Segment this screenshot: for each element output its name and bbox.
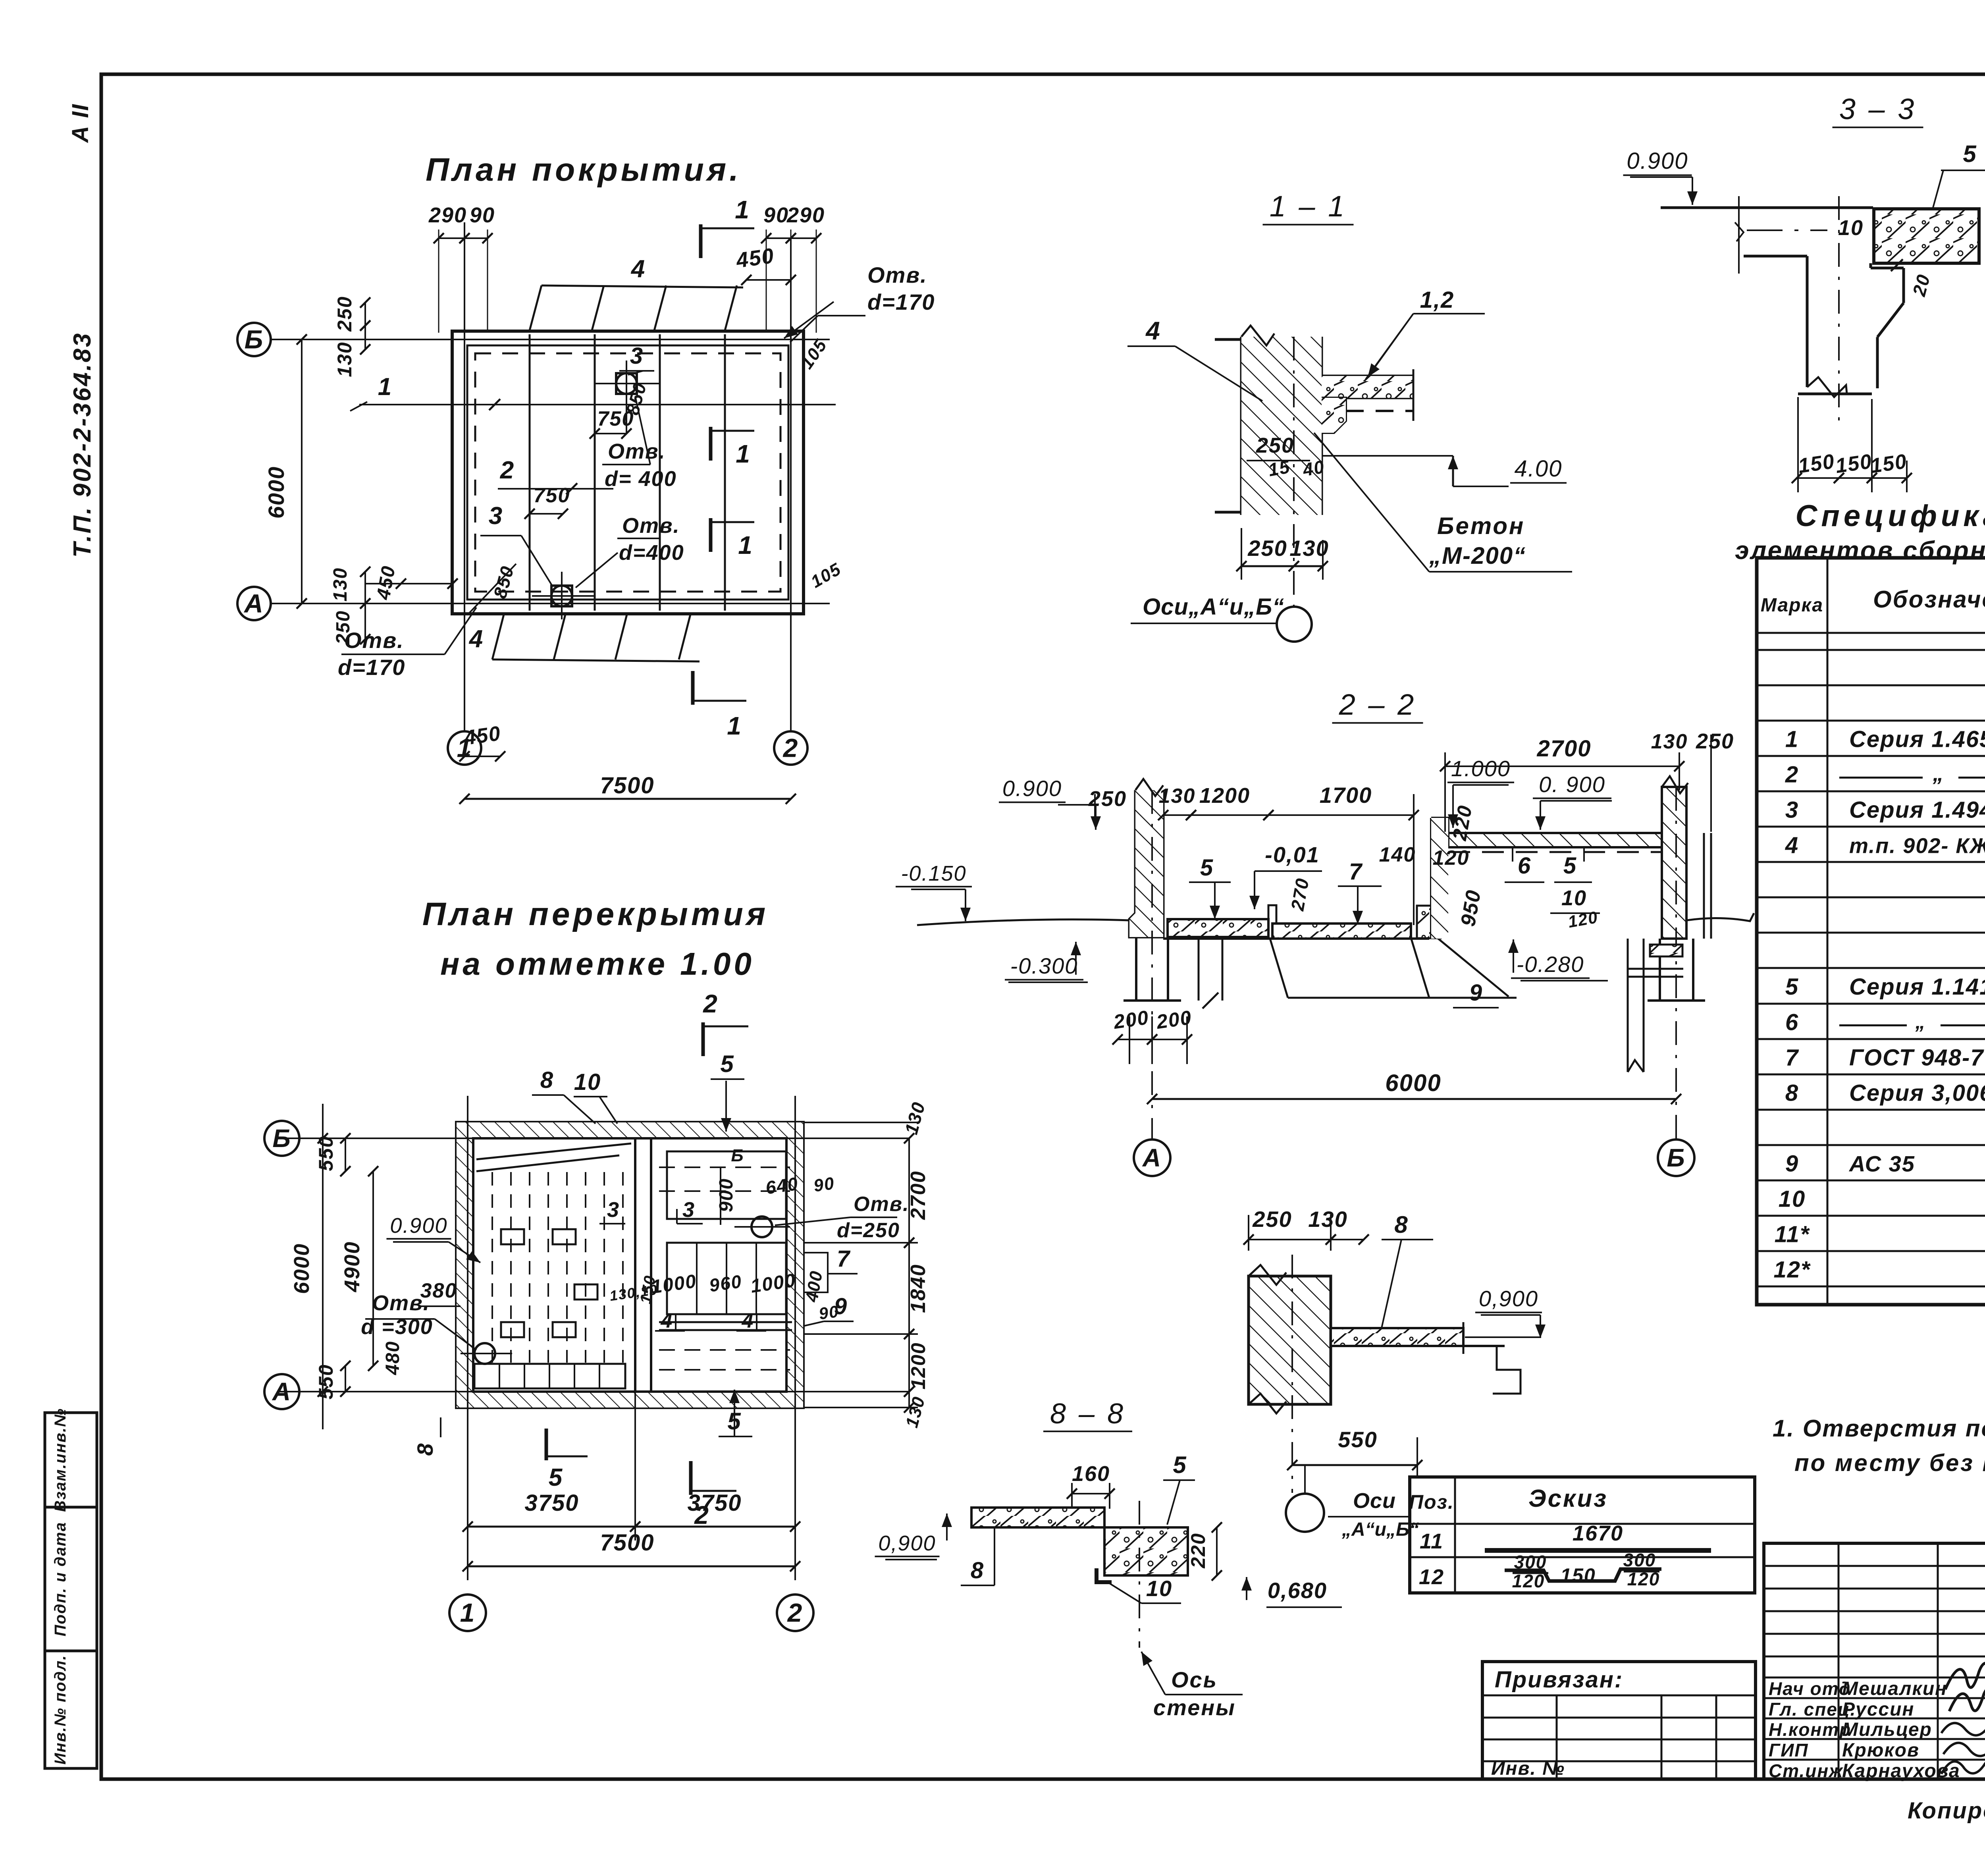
svg-text:0.900: 0.900 [1627, 148, 1688, 174]
dim 750 a [590, 407, 634, 439]
svg-text:4900: 4900 [340, 1241, 364, 1292]
sec2 level -0.150 [896, 862, 972, 921]
svg-text:-0,01: -0,01 [1265, 842, 1320, 867]
sec1 wall hatch [1241, 337, 1322, 515]
sec2 label 5 [1189, 855, 1231, 919]
svg-text:Оси„А“и„Б“: Оси„А“и„Б“ [1143, 594, 1284, 620]
plan2 label 9 right [803, 1294, 854, 1326]
sec1 slab [1322, 369, 1413, 421]
spec row 3 [1785, 796, 1985, 823]
dim 250 bottom-left [333, 598, 370, 645]
svg-text:130: 130 [1159, 785, 1196, 808]
plan2 dim 1840 right [904, 1238, 930, 1339]
plan2 joist hatch marks [501, 1229, 597, 1337]
svg-text:10: 10 [1838, 216, 1864, 240]
axis circle A [237, 587, 271, 620]
plan2 dim 900 [716, 1146, 744, 1225]
svg-text:ГИП: ГИП [1769, 1740, 1808, 1760]
svg-text:3: 3 [1785, 797, 1799, 823]
stamp box Podp.i.data [45, 1507, 97, 1651]
sec3 top line [1661, 206, 1873, 209]
sec2 dim 140 120 [1379, 843, 1470, 870]
sec8 os steny [1141, 1652, 1243, 1720]
svg-text:750: 750 [534, 484, 570, 507]
svg-text:1: 1 [735, 195, 750, 224]
sec1 beton label [1314, 433, 1572, 572]
svg-text:5: 5 [720, 1051, 734, 1077]
svg-text:1700: 1700 [1320, 783, 1372, 808]
svg-text:750: 750 [597, 407, 634, 430]
svg-text:90: 90 [763, 203, 789, 227]
sec3 level 0.900 [1623, 148, 1698, 205]
dim 6000 left [264, 334, 307, 609]
stamp box Inv.N.podl [45, 1651, 97, 1768]
svg-text:Отв.: Отв. [608, 440, 666, 463]
sec3 thin line [1747, 229, 1827, 231]
svg-text:5: 5 [1200, 855, 1214, 881]
svg-text:2: 2 [500, 457, 515, 484]
svg-text:т.п. 902- КЖИ-11: т.п. 902- КЖИ-11 [1849, 834, 1985, 858]
sec3 wall profile [1744, 256, 1904, 397]
svg-text:Поз.: Поз. [1409, 1491, 1454, 1513]
plan2 hole bottom circle [461, 1343, 512, 1364]
svg-text:130: 130 [1651, 730, 1688, 753]
sec2 labels 6 5 [1505, 847, 1592, 882]
plan2 axis circle 2 [777, 1595, 813, 1631]
svg-text:7: 7 [1349, 859, 1363, 885]
plan2 axis line 1 [467, 1096, 468, 1580]
plan2 dim 550 bottom [315, 1361, 351, 1400]
svg-text:Отв.: Отв. [344, 628, 404, 653]
svg-text:250: 250 [1088, 787, 1127, 811]
svg-text:А: А [272, 1377, 291, 1406]
svg-text:1200: 1200 [907, 1342, 929, 1389]
plan2 axis circle B [264, 1121, 299, 1156]
sec8 label 10 [1108, 1576, 1181, 1603]
sec2 level 1.000 [1447, 756, 1514, 828]
svg-text:4: 4 [630, 255, 646, 283]
title plan perekrytiya 2 [440, 946, 755, 981]
sec2 dim 950 [1457, 847, 1491, 939]
sec1 wall outline [1215, 337, 1322, 515]
svg-text:250: 250 [1256, 434, 1294, 457]
sec8 dim 160 [1067, 1462, 1115, 1509]
titleblock left grid [1764, 1543, 1985, 1779]
sec5 slab [1331, 1322, 1521, 1394]
axis line B [270, 339, 830, 340]
sec1 wall inner line [1293, 337, 1295, 607]
svg-text:3750: 3750 [524, 1490, 579, 1516]
svg-text:3: 3 [607, 1198, 620, 1222]
svg-text:300: 300 [1623, 1550, 1656, 1570]
sec2 dim 6000 [1147, 1070, 1681, 1104]
sec2 level -0.300 [1005, 942, 1088, 982]
svg-text:1: 1 [727, 711, 742, 740]
svg-text:Серия 1.141-1 в.9: Серия 1.141-1 в.9 [1849, 974, 1985, 1000]
svg-text:Б: Б [245, 324, 264, 354]
plan2 otv d250 [775, 1193, 910, 1242]
plan2 axis line A [278, 1391, 909, 1392]
svg-text:Отв.: Отв. [372, 1291, 430, 1315]
sec8 label 5 [1163, 1452, 1195, 1525]
dim 7500 bottom [459, 773, 796, 804]
svg-text:0. 900: 0. 900 [1539, 772, 1605, 797]
sec3 center dashdot [1838, 196, 1840, 424]
sec2 level -0.280 [1508, 939, 1608, 981]
svg-text:900: 900 [716, 1178, 737, 1212]
svg-text:160: 160 [1072, 1462, 1110, 1486]
svg-text:130: 130 [330, 567, 351, 602]
svg-text:4: 4 [468, 625, 484, 653]
svg-text:Т.П. 902-2-364.83: Т.П. 902-2-364.83 [69, 332, 96, 558]
title Plan pokrytiya [426, 152, 742, 188]
svg-text:1: 1 [378, 373, 392, 401]
svg-text:А II: А II [67, 104, 93, 143]
svg-text:140: 140 [1379, 843, 1416, 866]
svg-text:-0.150: -0.150 [901, 862, 966, 885]
svg-text:Б: Б [1667, 1143, 1685, 1172]
svg-text:90: 90 [470, 203, 495, 227]
plan2 dim 550 top [315, 1133, 351, 1176]
plan1 label 4 bottom [468, 625, 484, 653]
svg-text:„М-200“: „М-200“ [1429, 542, 1526, 569]
svg-text:Ось: Ось [1171, 1667, 1218, 1692]
section mark 1 midright a [711, 427, 754, 468]
svg-text:Марка: Марка [1761, 595, 1823, 616]
svg-text:550: 550 [315, 1136, 337, 1171]
svg-text:1840: 1840 [907, 1264, 930, 1313]
sec1 bottom dim 250 130 [1236, 528, 1329, 580]
svg-text:9: 9 [834, 1294, 848, 1319]
sec2 dim 1200 [1186, 784, 1274, 820]
svg-text:ГОСТ 948-76: ГОСТ 948-76 [1849, 1045, 1985, 1071]
plan2 dim 2700 right [904, 1133, 930, 1248]
sec8 label 8 [961, 1529, 994, 1585]
plan2 axis circle A [264, 1374, 299, 1409]
sec2 slab step [1268, 905, 1276, 924]
svg-text:8: 8 [1785, 1080, 1799, 1106]
svg-text:Бетон: Бетон [1437, 513, 1525, 539]
sec2 slab legs [1199, 939, 1222, 1008]
spec row 11 [1775, 1222, 1985, 1247]
plan2 dim 4900 [340, 1166, 378, 1371]
svg-text:Эскиз: Эскиз [1528, 1485, 1608, 1512]
plan2 right mid room [659, 1243, 792, 1330]
svg-text:7500: 7500 [600, 773, 654, 798]
svg-text:15: 15 [1267, 456, 1292, 480]
sec5 osi circle [1286, 1465, 1419, 1540]
svg-text:План покрытия.: План покрытия. [426, 152, 742, 188]
plan2 label 5 top [711, 1051, 744, 1132]
sec1 dim 15 40 [1267, 456, 1326, 480]
sec2 right footing [1648, 787, 1705, 1139]
svg-text:Отв.: Отв. [622, 514, 680, 538]
svg-text:Серия 1.494-24 в.1: Серия 1.494-24 в.1 [1849, 797, 1985, 823]
plan1 inner dashed contour [467, 345, 788, 600]
svg-text:2: 2 [787, 1598, 803, 1627]
plan1 label 4 top [630, 255, 646, 283]
dim 450 top-right [734, 244, 796, 285]
svg-text:1: 1 [460, 1598, 476, 1627]
plan2 dim 1200 right [904, 1329, 929, 1397]
sec5 dim 550 [1287, 1427, 1422, 1477]
notes line 2 [1794, 1450, 1985, 1476]
svg-text:-0.280: -0.280 [1517, 952, 1584, 977]
svg-text:4.00: 4.00 [1515, 456, 1563, 482]
svg-text:Отв.: Отв. [867, 262, 927, 287]
pos row 11 [1420, 1521, 1711, 1553]
sec2 axis circle A [1134, 1139, 1170, 1176]
svg-text:250: 250 [1247, 536, 1287, 561]
plan2 section mark 2 bottom [691, 1461, 736, 1529]
svg-text:10: 10 [1561, 886, 1587, 910]
sec1 osi circle [1131, 594, 1312, 642]
svg-text:0,900: 0,900 [878, 1531, 936, 1555]
spec row 9 [1785, 1151, 1985, 1177]
svg-text:4: 4 [1785, 833, 1799, 858]
privyazan inv no [1491, 1758, 1565, 1779]
dim 105 right-top [797, 335, 831, 372]
svg-text:Серия 3,006-2 в.1: Серия 3,006-2 в.1 [1849, 1080, 1985, 1106]
spec row 1 [1785, 721, 1985, 762]
svg-text:7500: 7500 [600, 1530, 654, 1556]
notes line 1 [1773, 1415, 1985, 1442]
sec2 level 0.900 left [999, 776, 1101, 830]
corner mark A II [67, 104, 93, 143]
svg-text:2700: 2700 [1536, 736, 1591, 762]
svg-text:4: 4 [661, 1309, 673, 1332]
sec2 left wall [1129, 779, 1163, 937]
svg-text:Серия 1.465-7 в.3: Серия 1.465-7 в.3 [1849, 727, 1985, 752]
sec2 dim 2700 [1440, 736, 1684, 832]
spec row 10 [1779, 1168, 1985, 1212]
plan2 outer wall [457, 1122, 803, 1407]
svg-text:10: 10 [574, 1069, 601, 1095]
sec2 pit [1270, 938, 1517, 998]
plan1 outer wall rect [452, 331, 804, 614]
spec table grid [1757, 558, 1985, 1305]
svg-text:10: 10 [1779, 1186, 1806, 1212]
sec2 pier [1417, 906, 1441, 938]
svg-text:d=170: d=170 [867, 289, 935, 314]
svg-text:d= 400: d= 400 [605, 467, 677, 491]
svg-text:90: 90 [812, 1174, 836, 1196]
plan2 dim 3750 b [630, 1382, 800, 1541]
sec5 level 0.900 [1465, 1286, 1546, 1338]
sec2 dim 130 250 right [1651, 729, 1734, 832]
svg-text:Мильцер: Мильцер [1842, 1719, 1932, 1740]
svg-text:Спецификация ксхемам располо: Спецификация ксхемам расположения [1796, 499, 1985, 533]
plan2 label 3 left [599, 1198, 625, 1224]
svg-text:Привязан:: Привязан: [1495, 1667, 1623, 1693]
bottom caption Kopiroval [1908, 1798, 1985, 1824]
sec5 dims 250 130 [1243, 1207, 1369, 1251]
svg-text:8 – 8: 8 – 8 [1050, 1398, 1125, 1430]
plan2 dim 130 topright [803, 1099, 929, 1407]
sec1 break top [1241, 326, 1274, 345]
plan2 label 5 bottom [719, 1390, 752, 1453]
svg-text:Инв. №: Инв. № [1491, 1758, 1565, 1779]
dim 130 450 lower-left [330, 564, 458, 609]
sec3 label 5 [1933, 141, 1985, 208]
sec8 slab band [971, 1508, 1104, 1527]
svg-text:8: 8 [971, 1558, 984, 1583]
plan2 dim 380 [420, 1279, 461, 1306]
titleblock signature squiggles [1941, 1663, 1985, 1774]
svg-text:7: 7 [1785, 1045, 1799, 1071]
plan2 dim 3750 a [463, 1490, 640, 1532]
svg-text:6: 6 [1518, 853, 1531, 879]
svg-text:1: 1 [738, 531, 753, 559]
spec row 2 [1785, 757, 1985, 797]
plan2 left room joists [492, 1172, 623, 1363]
section mark 1 top [701, 195, 754, 258]
svg-text:1: 1 [1785, 727, 1799, 752]
dim 250 130 left [333, 296, 381, 377]
sec2 dim 1700 [1263, 783, 1419, 925]
plan2 section mark 2 top [703, 989, 748, 1056]
title 2-2 [1332, 688, 1423, 723]
section mark 1 midright b [711, 518, 754, 559]
plan2 label 10 [574, 1069, 617, 1124]
title 3-3 [1833, 93, 1923, 127]
svg-text:2 – 2: 2 – 2 [1339, 688, 1416, 721]
svg-text:5: 5 [549, 1464, 563, 1491]
svg-text:550: 550 [315, 1364, 337, 1399]
svg-text:40: 40 [1301, 456, 1326, 480]
sec2 dim 200 200 [1112, 1006, 1193, 1064]
svg-text:1. Отверстия под водосточные: 1. Отверстия под водосточные воронки про… [1773, 1415, 1985, 1442]
dim 850 mid2 [468, 563, 518, 614]
svg-text:Оси: Оси [1353, 1489, 1396, 1513]
sec8 dim 220 [1187, 1522, 1222, 1581]
svg-text:250: 250 [1696, 729, 1734, 753]
axis circle B [237, 323, 271, 356]
svg-text:Н.контр: Н.контр [1769, 1719, 1851, 1740]
pos header [1409, 1485, 1608, 1513]
svg-text:11*: 11* [1775, 1222, 1810, 1247]
sec2 right room left wall [1431, 818, 1448, 939]
svg-text:5: 5 [1563, 853, 1577, 879]
svg-text:6000: 6000 [1385, 1070, 1441, 1096]
svg-text:элементов сборной конструкции: элементов сборной конструкции покрытия, … [1735, 536, 1985, 565]
svg-text:Отв.: Отв. [854, 1193, 910, 1216]
sec2 label 7 [1338, 859, 1382, 924]
sec2 right room top slab [1448, 833, 1662, 852]
axis line A [270, 603, 830, 604]
svg-text:Подп. и дата: Подп. и дата [52, 1522, 69, 1637]
svg-text:1 – 1: 1 – 1 [1270, 190, 1347, 223]
titleblock signatures text [1769, 1678, 1960, 1782]
title 1-1 [1263, 190, 1354, 225]
svg-text:550: 550 [1338, 1427, 1377, 1452]
sec2 dim 270 [1287, 876, 1313, 913]
plan2 dim 480 [382, 1341, 403, 1375]
axis line 2 [790, 238, 792, 731]
plan2 hole top circle [734, 1217, 790, 1237]
callout Otv d400 top [602, 396, 677, 491]
sec2 dim 220 [1448, 803, 1476, 847]
svg-text:2: 2 [703, 989, 718, 1018]
sec1 dim 250 [1247, 434, 1310, 461]
plan2 label 8 left [412, 1382, 457, 1456]
svg-text:250: 250 [1252, 1207, 1292, 1232]
dim 290 90 top-left [428, 203, 495, 333]
svg-text:6: 6 [1785, 1010, 1799, 1035]
svg-text:8: 8 [412, 1442, 437, 1456]
hole top leader 3 [619, 343, 654, 375]
sec2 label 9 [1453, 980, 1584, 1008]
dim 850 mid [622, 380, 651, 417]
svg-text:2: 2 [782, 733, 799, 762]
axis circle 2 [774, 731, 807, 765]
plan2 label 8 [532, 1067, 595, 1124]
sec2 ground curve [917, 913, 1754, 925]
svg-text:d=170: d=170 [338, 655, 405, 680]
svg-text:5: 5 [1785, 974, 1799, 1000]
svg-text:290: 290 [786, 203, 825, 227]
plan1 slanted strips top [529, 285, 743, 332]
spec row 7 [1785, 1035, 1985, 1079]
svg-text:10: 10 [1146, 1576, 1172, 1601]
svg-text:6000: 6000 [264, 466, 289, 519]
plan2 interior labels 4 [655, 1309, 766, 1332]
svg-text:5: 5 [1173, 1452, 1187, 1478]
title plan perekrytiya 1 [422, 896, 769, 932]
plan1 label 3 bottom [480, 502, 553, 586]
svg-text:Копировал:: Копировал: [1908, 1798, 1985, 1824]
svg-text:11: 11 [1420, 1529, 1443, 1553]
plan2 top-left diag [476, 1143, 631, 1171]
dim 90 290 top-right [761, 203, 825, 333]
plan2 axis circle 1 [449, 1595, 486, 1631]
svg-text:Мешалкин: Мешалкин [1842, 1678, 1947, 1699]
dim 450 bottom [459, 722, 505, 762]
spec heading line2 [1735, 536, 1985, 565]
svg-text:1670: 1670 [1573, 1521, 1623, 1545]
svg-text:8: 8 [1394, 1211, 1408, 1238]
svg-text:0,680: 0,680 [1268, 1578, 1327, 1603]
plan2 otv d300 [361, 1291, 476, 1350]
svg-text:Инв.№ подл.: Инв.№ подл. [52, 1655, 69, 1765]
sec1 corbel [1322, 398, 1346, 433]
title 8-8 [1043, 1398, 1132, 1431]
sec8 level 0.680 [1241, 1577, 1342, 1607]
svg-text:Б: Б [272, 1124, 291, 1153]
svg-text:9: 9 [1785, 1151, 1799, 1177]
privyazan block [1482, 1662, 1756, 1779]
pos row 12 [1419, 1550, 1661, 1591]
svg-text:4: 4 [1145, 316, 1161, 345]
hole top square [595, 361, 659, 434]
svg-text:d=400: d=400 [619, 541, 684, 565]
svg-text:150: 150 [1560, 1564, 1596, 1587]
sec2 label 10 [1550, 886, 1624, 913]
sec8 level 0.900 [875, 1514, 972, 1560]
svg-text:130: 130 [333, 341, 356, 377]
svg-text:12: 12 [1419, 1565, 1444, 1589]
svg-text:А: А [1142, 1143, 1162, 1172]
spec table header Marka [1761, 595, 1823, 616]
svg-text:120: 120 [1433, 846, 1470, 870]
plan2 dim 640 90 [764, 1173, 836, 1198]
spec row 5 [1785, 973, 1985, 1000]
plan2 axis line B [278, 1138, 909, 1139]
svg-text:Руссин: Руссин [1842, 1699, 1914, 1720]
svg-text:3: 3 [489, 502, 503, 530]
plan2 section mark 5 bottom [546, 1429, 588, 1491]
sec2 floor slab left [1163, 919, 1429, 939]
